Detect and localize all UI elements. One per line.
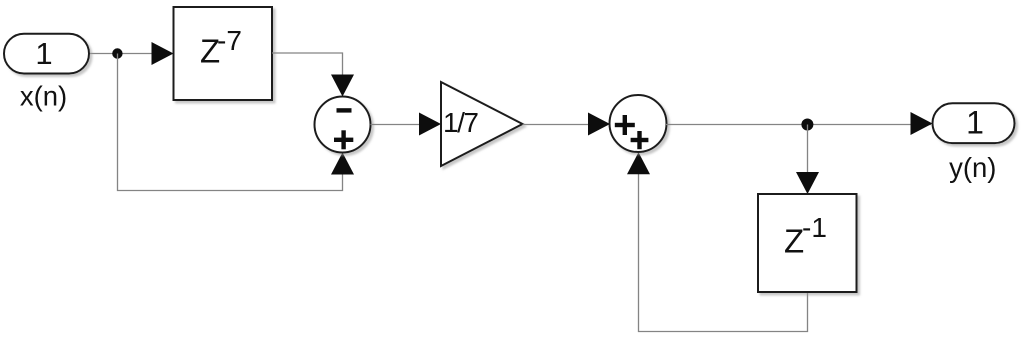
svg-text:-7: -7 <box>217 25 242 56</box>
plus sign of Sum1 <box>334 138 353 142</box>
svg-text:1: 1 <box>966 105 984 141</box>
wire In1 to Delay7 <box>89 53 172 55</box>
wire arrowhead into Out1 <box>911 112 933 135</box>
wire Sum2 to Out1 <box>666 124 931 126</box>
wire arrowhead into Sum1 top <box>331 75 354 97</box>
minus sign of Sum1 <box>337 108 352 112</box>
plus sign west of Sum2 <box>615 123 635 127</box>
svg-text:y(n): y(n) <box>949 152 996 183</box>
wire feedback Delay1 to Sum2 bottom <box>639 168 808 332</box>
wire arrowhead into Gain <box>419 113 441 136</box>
node branch junction on input wire <box>112 48 122 58</box>
wire Gain to Sum2 <box>523 124 609 126</box>
wire Delay7 to Sum1 top <box>272 53 343 80</box>
svg-text:1: 1 <box>35 36 52 71</box>
block Z^-1 delay <box>758 194 857 292</box>
sum Sum2 <box>610 95 667 152</box>
gain 1/7 <box>441 82 523 166</box>
node branch junction on output wire <box>801 119 813 131</box>
sum Sum1 <box>315 97 371 153</box>
svg-text:-1: -1 <box>802 212 827 243</box>
wire Sum1 to Gain <box>371 124 440 126</box>
wire arrowhead into Delay7 <box>152 42 174 65</box>
wire arrowhead into Sum2 <box>588 113 610 136</box>
block Z^-7 delay <box>174 7 273 100</box>
svg-text:1/7: 1/7 <box>443 107 478 138</box>
svg-text:x(n): x(n) <box>20 81 67 112</box>
wire arrowhead into Delay1 <box>796 172 819 194</box>
wire feedback In1 to Sum1 bottom <box>118 54 343 191</box>
wire arrowhead into Sum1 bottom <box>331 153 354 175</box>
wire junction down to Delay1 <box>807 125 809 179</box>
wire arrowhead into Sum2 bottom <box>627 152 650 174</box>
input port In1 <box>4 34 89 74</box>
output port Out1 <box>933 103 1015 143</box>
plus sign south of Sum2 <box>631 138 649 142</box>
